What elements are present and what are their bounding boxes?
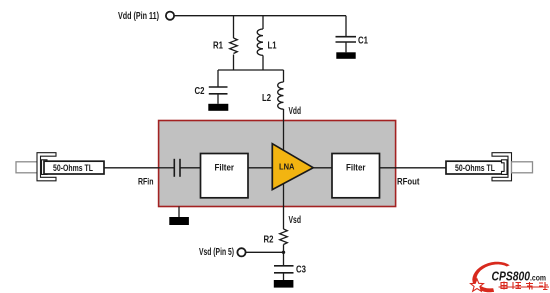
ground under module [169, 217, 189, 225]
inductor L2 [278, 82, 284, 109]
wire terminal to R2/C3 junction [246, 251, 284, 253]
connector right inner bracket [502, 160, 508, 175]
junction dot [282, 251, 285, 254]
filter block 1 [201, 154, 249, 198]
svg-text:RFout: RFout [397, 177, 420, 188]
svg-text:Vsd: Vsd [289, 215, 302, 226]
ground stub under module [178, 207, 180, 218]
svg-text:LNA: LNA [279, 161, 295, 171]
svg-text:L2: L2 [262, 93, 271, 104]
wire module left edge to blocking cap [158, 167, 174, 169]
connector left outer shell bracket [37, 153, 56, 181]
svg-text:.com: .com [530, 273, 546, 283]
resistor R2 [280, 229, 288, 245]
wire L1 top stub [262, 16, 264, 29]
op-amp LNA triangle [272, 144, 313, 190]
svg-text:Filter: Filter [215, 162, 235, 173]
ground under C3 [274, 280, 294, 288]
filter block 2 [332, 154, 380, 198]
node Vsd (Pin 5) terminal circle [237, 248, 245, 256]
logo chinese strip 电源在线 [499, 282, 550, 290]
svg-text:Vdd: Vdd [289, 106, 302, 117]
wire top rail [174, 15, 346, 17]
connector left plug body [16, 162, 38, 173]
svg-text:50-Ohms TL: 50-Ohms TL [53, 163, 93, 174]
svg-text:CPS800: CPS800 [492, 270, 531, 284]
svg-text:R2: R2 [264, 234, 274, 245]
capacitor dc-block (input) [174, 159, 180, 177]
wire L2 top stub [283, 70, 285, 82]
svg-text:Filter: Filter [346, 162, 366, 173]
svg-text:C1: C1 [358, 36, 368, 47]
ground under C1 [336, 52, 355, 59]
inductor L1 [257, 29, 263, 55]
capacitor C1 [336, 37, 357, 53]
ground under C2 [208, 104, 228, 111]
svg-text:C3: C3 [296, 265, 306, 276]
capacitor C2 [209, 87, 228, 104]
wire R1 top stub [233, 16, 235, 38]
svg-text:50-Ohms TL: 50-Ohms TL [455, 163, 495, 174]
wire C1 top stub [345, 16, 347, 37]
wire cap to Filter1 [180, 167, 201, 169]
wire Filter2 to module edge and out (RFout) [380, 167, 447, 169]
svg-text:RFin: RFin [138, 177, 154, 188]
logo CPS800.com swoosh C [472, 262, 510, 293]
wire Filter1 to LNA [248, 167, 272, 169]
svg-text:C2: C2 [195, 86, 205, 97]
transmission line 50-Ohms TL (right) [446, 161, 506, 174]
svg-text:L1: L1 [268, 40, 277, 51]
connector right plug body [512, 162, 533, 173]
svg-text:Vsd (Pin 5): Vsd (Pin 5) [199, 247, 234, 258]
resistor R1 [230, 38, 238, 54]
node Vdd (Pin 11) terminal circle [166, 12, 174, 20]
wire C2 top stub [217, 70, 219, 87]
transmission line 50-Ohms TL (left) [44, 161, 104, 174]
wire R2 bottom to C3 [283, 245, 285, 266]
wire TL to module (RFin) [104, 167, 158, 169]
wire L1 bottom stub [262, 55, 264, 70]
svg-text:Vdd (Pin 11): Vdd (Pin 11) [118, 11, 159, 22]
wire R1 bottom stub [233, 55, 235, 71]
connector right outer shell bracket [492, 153, 512, 181]
svg-text:R1: R1 [213, 40, 223, 51]
connector left inner bracket [42, 160, 48, 175]
wire LNA to Filter2 [313, 167, 332, 169]
wire vertical Vdd/Vsd trunk through module [283, 109, 285, 229]
wire mid rail (R1/L1 bottom bus) [218, 69, 284, 71]
amplifier block (gray module) [159, 121, 396, 207]
logo star [471, 279, 484, 291]
capacitor C3 [274, 266, 294, 280]
